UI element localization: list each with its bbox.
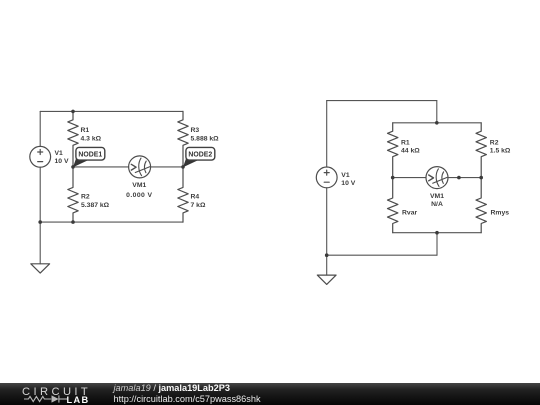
svg-text:NODE1: NODE1 xyxy=(78,152,102,159)
wire: left circuit left rail upper (to V1) xyxy=(39,111,41,146)
svg-text:VM1: VM1 xyxy=(132,182,146,189)
wire: left circuit bottom rail xyxy=(40,221,183,223)
CircuitLab logo xyxy=(0,383,100,405)
voltage source V1 (right, 10V) xyxy=(316,167,337,188)
junction: left bottom ground tap xyxy=(38,220,42,224)
junction: right bottom drop xyxy=(435,231,439,235)
resistor Rmys xyxy=(476,178,486,233)
junction: right VM1 terminal xyxy=(457,176,461,180)
resistor R4 (left, 7k) xyxy=(178,167,188,222)
svg-text:10 V: 10 V xyxy=(341,180,355,187)
voltage source V1 (left, 10V) xyxy=(30,146,51,167)
wire: right bridge bottom drop xyxy=(436,233,438,256)
svg-text:Rmys: Rmys xyxy=(491,210,510,217)
voltmeter VM1 (left) xyxy=(129,156,151,178)
junction: NODE2 point xyxy=(181,165,185,169)
resistor Rvar xyxy=(388,178,398,233)
junction: NODE1 point xyxy=(71,165,75,169)
wire: right circuit top feed drop xyxy=(436,101,438,123)
resistor R2 (left, 5.387k) xyxy=(68,167,78,222)
svg-text:R1: R1 xyxy=(401,139,410,146)
svg-text:N/A: N/A xyxy=(431,201,443,208)
wire: right circuit bottom return xyxy=(327,254,437,256)
svg-text:R4: R4 xyxy=(191,193,200,200)
svg-text:VM1: VM1 xyxy=(430,193,444,200)
wire: right bridge middle right (VM1 to R2 node) xyxy=(448,177,481,179)
svg-text:LAB: LAB xyxy=(67,395,90,405)
svg-text:7 kΩ: 7 kΩ xyxy=(191,202,206,209)
wire: right bridge bottom rail xyxy=(393,232,482,234)
wire: right bridge middle left (R1 node to VM1) xyxy=(393,177,426,179)
svg-text:5.387 kΩ: 5.387 kΩ xyxy=(81,202,110,209)
resistor R1 (right, 44k) xyxy=(388,123,398,178)
wire: NODE1 to voltmeter VM1 left xyxy=(73,166,129,168)
junction: right ground node xyxy=(325,253,329,257)
svg-text:R3: R3 xyxy=(191,127,200,134)
ground (right) xyxy=(317,275,336,284)
svg-text:5.888 kΩ: 5.888 kΩ xyxy=(191,136,220,143)
wire: voltmeter VM1 right to NODE2 xyxy=(151,166,184,168)
wire: left ground lead xyxy=(39,222,41,264)
junction: right middle left node xyxy=(391,176,395,180)
wire: right bridge top rail xyxy=(393,122,482,124)
wire: right circuit left rail lower (V1 to ground) xyxy=(326,188,328,275)
svg-text:10 V: 10 V xyxy=(55,158,69,165)
wire: left circuit top rail xyxy=(40,110,183,112)
junction: right middle right node xyxy=(479,176,483,180)
svg-text:NODE2: NODE2 xyxy=(188,152,212,159)
wire: right circuit left rail upper (to V1) xyxy=(326,101,328,167)
footer bar xyxy=(0,383,540,405)
svg-text:0.000 V: 0.000 V xyxy=(126,192,152,199)
node flag NODE1 xyxy=(73,147,105,167)
resistor R3 (left, 5.888k) xyxy=(178,111,188,166)
svg-text:R2: R2 xyxy=(81,193,90,200)
footer meta text xyxy=(114,383,261,405)
resistor R1 (left, 4.3k) xyxy=(68,111,78,166)
wire: left circuit left rail lower (V1 to bottom) xyxy=(39,167,41,222)
junction: left bottom R2 tap xyxy=(71,220,75,224)
svg-text:Rvar: Rvar xyxy=(402,210,417,217)
svg-text:V1: V1 xyxy=(55,150,64,157)
voltmeter VM1 (right) xyxy=(426,167,448,189)
svg-text:R2: R2 xyxy=(490,139,499,146)
wire: right circuit top rail xyxy=(327,100,437,102)
svg-text:44 kΩ: 44 kΩ xyxy=(401,148,420,155)
ground (left) xyxy=(31,264,50,273)
resistor R2 (right, 1.5k) xyxy=(476,123,486,178)
svg-text:R1: R1 xyxy=(81,127,90,134)
svg-text:4.3 kΩ: 4.3 kΩ xyxy=(81,136,102,143)
svg-text:1.5 kΩ: 1.5 kΩ xyxy=(490,148,511,155)
svg-text:V1: V1 xyxy=(341,172,350,179)
junction: right top feed xyxy=(435,121,439,125)
junction: left top R1 tap xyxy=(71,110,75,114)
node flag NODE2 xyxy=(183,147,215,167)
